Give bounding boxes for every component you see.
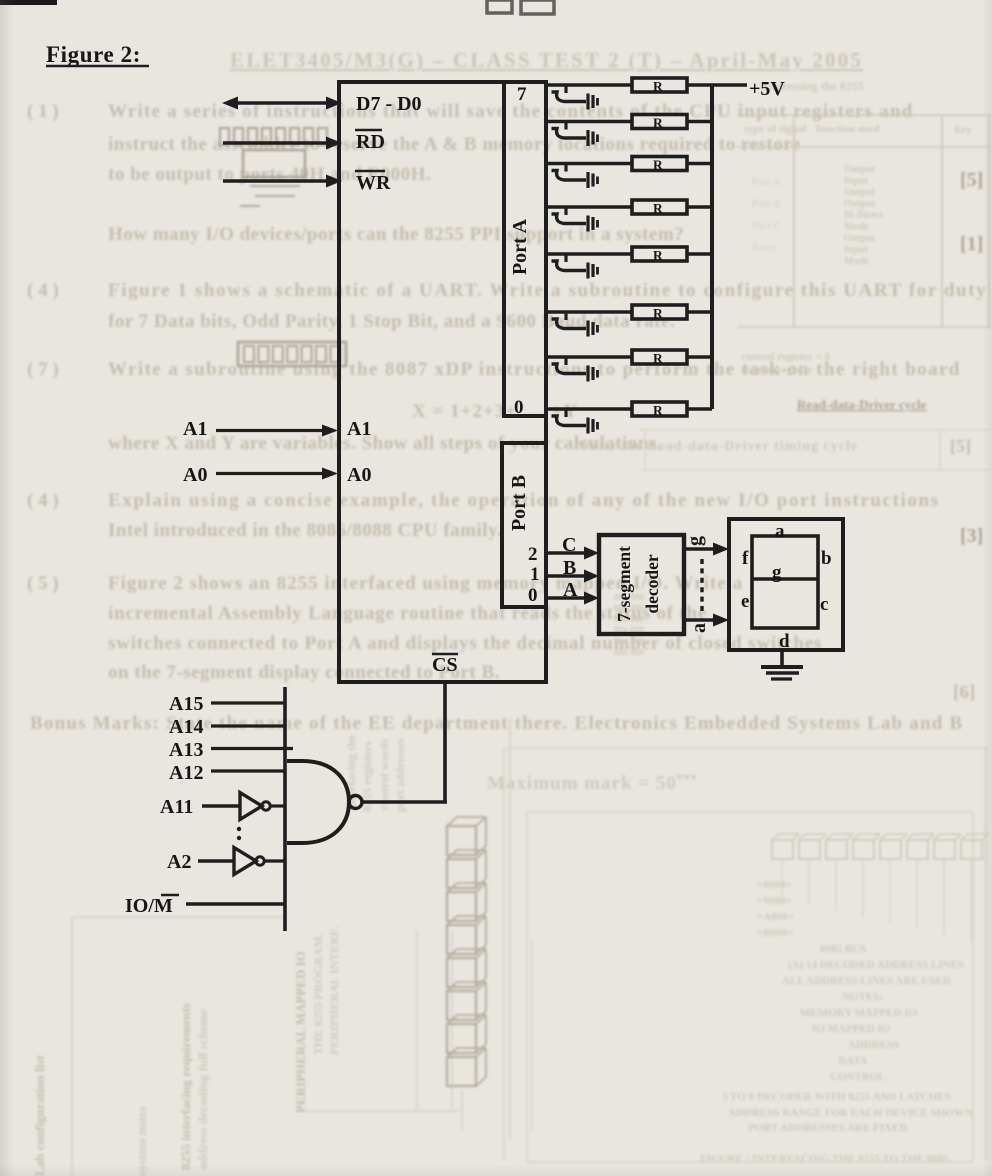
svg-text:R: R [653,116,663,131]
svg-text:A14: A14 [169,716,203,738]
svg-text:a: a [775,521,785,542]
svg-text:g: g [772,562,782,583]
svg-text:A1: A1 [347,418,371,440]
svg-text:A2: A2 [167,851,191,873]
svg-text:A0: A0 [347,464,371,486]
svg-text:b: b [821,548,832,569]
svg-text:R: R [653,158,663,173]
svg-text:R: R [653,306,663,321]
svg-text:CS: CS [432,654,458,676]
svg-text:R: R [653,403,663,418]
svg-text:A15: A15 [169,693,203,715]
svg-text:A1: A1 [183,418,207,440]
svg-text:D7 - D0: D7 - D0 [356,93,422,115]
svg-text:Figure 2:: Figure 2: [46,42,141,67]
svg-text:0: 0 [514,397,524,418]
svg-text:7: 7 [517,84,527,105]
svg-text:d: d [779,631,790,652]
svg-text:g: g [684,536,706,546]
svg-text:A0: A0 [183,464,207,486]
svg-text:A: A [563,579,578,601]
svg-text:A11: A11 [160,796,193,818]
svg-text:f: f [742,548,749,569]
svg-text:A13: A13 [169,739,203,761]
svg-text:B: B [563,557,576,579]
svg-text:7-segment: 7-segment [614,546,634,622]
svg-text:R: R [653,79,663,94]
svg-text:IO/M: IO/M [125,895,173,917]
svg-text:0: 0 [528,585,538,606]
svg-text:c: c [820,594,828,615]
svg-text:+5V: +5V [749,78,785,100]
svg-text:decoder: decoder [642,554,662,614]
svg-text:e: e [741,591,749,612]
svg-text:Port A: Port A [509,218,531,275]
svg-text:1: 1 [530,564,540,585]
svg-text:2: 2 [528,544,538,565]
svg-text:A12: A12 [169,762,203,784]
svg-text:R: R [653,351,663,366]
svg-text:R: R [653,248,663,263]
svg-text:Port B: Port B [508,475,530,531]
svg-text:C: C [562,534,576,556]
svg-text:R: R [653,201,663,216]
svg-text:a: a [688,623,710,633]
svg-text:RD: RD [356,131,385,153]
svg-text:WR: WR [356,172,391,194]
